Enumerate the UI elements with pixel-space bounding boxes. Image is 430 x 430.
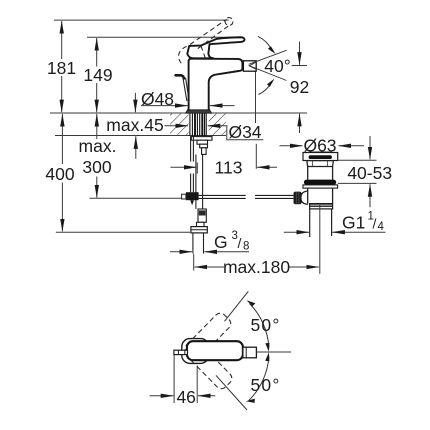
- faucet lever handle (solid): [187, 37, 244, 58]
- faucet base plate: [186, 110, 212, 113]
- faucet pop-up knob (rear rod): [176, 75, 190, 101]
- dimension max.300: [79, 114, 117, 198]
- drain tailpipe G1 1/4: [310, 209, 332, 237]
- svg-text:149: 149: [83, 65, 112, 85]
- mounting locknut: [191, 137, 212, 155]
- dimension 113: [171, 144, 278, 178]
- svg-text:Ø63: Ø63: [303, 136, 336, 156]
- countertop hatch left block: [170, 114, 189, 135]
- countertop top surface line: [50, 112, 307, 114]
- dimension G3/8: [170, 230, 249, 253]
- plan view: upper 50 arc: [247, 300, 281, 352]
- svg-text:113: 113: [215, 158, 243, 178]
- extension line top (181 ref, raised lever): [54, 19, 229, 21]
- plan view: faucet body: [187, 341, 243, 360]
- svg-text:50°: 50°: [250, 375, 280, 395]
- svg-text:40-53: 40-53: [347, 163, 392, 183]
- plan view: 50 degree fan line upper: [225, 291, 249, 321]
- dimension 400: [45, 114, 74, 231]
- svg-text:max.180: max.180: [223, 257, 290, 277]
- svg-text:92: 92: [290, 77, 309, 97]
- drain rod knob: [294, 192, 302, 205]
- dimension 46: [150, 355, 216, 407]
- faucet spout vertical reference line: [255, 72, 257, 124]
- drain ball-joint housing: [301, 191, 308, 204]
- threaded shank: [190, 114, 206, 136]
- dimension O34: [165, 122, 264, 142]
- horizontal pop-up rod to drain: [199, 195, 294, 198]
- plan view: aerator stub: [243, 347, 257, 358]
- dimension 40-53: [338, 136, 392, 207]
- supply connector block: [198, 209, 206, 222]
- faucet aerator: [243, 61, 256, 71]
- dimension O48: [141, 89, 235, 109]
- G3/8 nut: [191, 222, 207, 233]
- dimension 181: [47, 21, 76, 112]
- svg-text:/: /: [373, 216, 377, 232]
- plan view: pop-up knob: [174, 350, 188, 354]
- dimension max.180: [194, 254, 319, 277]
- svg-text:300: 300: [82, 157, 111, 177]
- svg-text:max.45: max.45: [106, 115, 163, 135]
- svg-text:Ø34: Ø34: [228, 122, 261, 142]
- dimension max.45: [106, 93, 163, 159]
- plan view: lower 50 arc: [246, 352, 281, 403]
- dimension 149: [83, 38, 112, 112]
- svg-text:max.: max.: [79, 136, 117, 156]
- svg-text:50°: 50°: [250, 315, 280, 335]
- rod pivot block: [182, 192, 199, 205]
- svg-text:46: 46: [176, 387, 195, 407]
- drain flange (O63): [303, 152, 338, 161]
- svg-text:181: 181: [47, 58, 76, 78]
- svg-text:400: 400: [45, 164, 74, 184]
- countertop bottom surface line: [55, 135, 226, 137]
- dimension 92: [290, 42, 309, 134]
- svg-text:G1: G1: [342, 213, 365, 233]
- reference line 400 bottom (G3/8 connection level): [56, 231, 190, 233]
- reference line max.300 bottom (pop-up rod level): [90, 197, 187, 199]
- drain o-ring seal: [304, 180, 336, 185]
- pop-up pull rod (vertical): [191, 136, 194, 192]
- plan view: base ring: [182, 339, 209, 364]
- svg-text:/: /: [238, 235, 242, 251]
- svg-text:4: 4: [378, 221, 385, 233]
- drain lip: [303, 185, 338, 188]
- drain lower nut: [310, 204, 333, 209]
- dimension O63: [280, 136, 365, 156]
- dimension 40 degrees spout swivel: [249, 36, 291, 94]
- plan view: centerline: [256, 351, 291, 353]
- drain body: [308, 188, 333, 204]
- dimension G1 1/4: [284, 211, 386, 234]
- countertop hatch right block: [209, 114, 226, 135]
- supply pipe: [196, 154, 203, 209]
- plan view: dashed handle rotated down: [184, 340, 234, 391]
- faucet lever raised (dashed): [179, 18, 233, 64]
- drain neck: [306, 161, 334, 180]
- plan view: dashed handle rotated up: [183, 311, 233, 362]
- faucet body and spout: [189, 59, 243, 110]
- drain centerline: [319, 206, 321, 274]
- extension line (149 ref, lever rest): [87, 36, 236, 38]
- G3/8 pipe: [193, 233, 204, 254]
- plan view: 50 degree fan line lower: [216, 375, 247, 410]
- svg-text:8: 8: [243, 241, 249, 253]
- svg-text:G: G: [214, 232, 228, 252]
